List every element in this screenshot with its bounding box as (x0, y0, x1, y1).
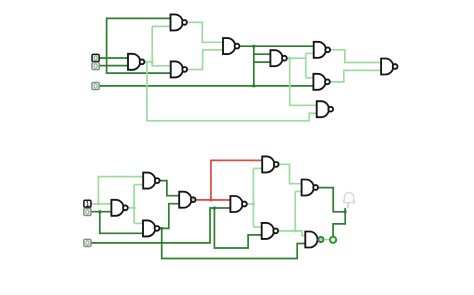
nand-gate U8 (317, 101, 333, 117)
output indicator (value 0) (330, 237, 336, 243)
wire red net Q4 output to Q5 input 1 and Q6 input 1 (196, 160, 263, 201)
nand-gate Q2 (111, 200, 127, 216)
wire Q8 output to Q7 input 2 and Q9 input 1 (279, 191, 307, 235)
nand-gate Q7 (302, 180, 318, 196)
wire U3 output to U1 input 2 and U4 input 1 (145, 26, 172, 65)
nand-gate Q1 (143, 173, 159, 189)
wire branch to U1 input 1 and U4 input 2 (107, 18, 172, 73)
wire Q7 output to output indicator with LED branch (319, 188, 347, 237)
input E (value 0) (84, 208, 91, 215)
nand-gate Q5 (230, 196, 246, 212)
input F (value 0) (84, 239, 91, 246)
wire Q1 output to Q4 input 1 (160, 181, 180, 196)
nand-gate U7 (313, 74, 329, 90)
input B (value 0) (92, 63, 99, 70)
nand-gate U5 (270, 50, 286, 66)
wire net-B input B to U3 input 2 (100, 65, 130, 67)
nand-gate Q8 (262, 223, 278, 239)
nand-gate Q3 (143, 220, 159, 236)
wire Q6 output to Q7 input 1 (279, 164, 302, 183)
wire U3 output long run to U8 input 2 (146, 61, 318, 121)
nand-gate U2 (223, 38, 239, 54)
nand-gate U1 (171, 14, 187, 30)
nand-gate Q4 (179, 192, 195, 208)
wire U2 output to U6 input 1 and U5 inputs (240, 45, 315, 86)
wire U6 output to U9 input 1 (331, 50, 382, 63)
nand-gate Q6 (262, 156, 278, 172)
input A (value 0, selected) (92, 54, 99, 61)
input C (value 0) (92, 82, 99, 89)
wire Q9 output stub (325, 239, 330, 241)
LED lamp (unlit) (344, 192, 355, 208)
nand-gate Q9 (305, 232, 323, 248)
wire U1 output to U2 input 1 (188, 22, 225, 42)
wire U4 output to U2 input 2 (188, 50, 224, 70)
nand-gate U6 (314, 42, 330, 58)
input D (value 1, selected) (84, 200, 91, 207)
wire net-D input D to Q2 input 1 and Q1 input 1 (91, 177, 144, 206)
wire Q2 output to Q1 input 2 and Q3 input 1 (129, 185, 145, 224)
nand-gate U9 (381, 59, 397, 75)
wire net-C input C to U7 input 2 (100, 85, 315, 88)
wire net-E input E to Q2 input 2 and Q3 input 2 (91, 210, 144, 233)
wire net-A input A to U3 input 1 (100, 57, 130, 59)
wire Q5 output to Q6 input 2 and Q8 input 1 (248, 168, 264, 227)
wire net-F input F to Q5 input 2 and Q8 input 2 (91, 207, 263, 248)
wire U5 output to U6 input 2, U7 input 1 and U8 input 1 (288, 53, 318, 105)
nand-gate U3 (128, 54, 144, 70)
wire U7 output to U9 input 2 (331, 70, 383, 82)
nand-gate U4 (171, 61, 187, 77)
wire Q3 output to Q4 input 2 and long run to Q9 input 2 (160, 204, 306, 259)
